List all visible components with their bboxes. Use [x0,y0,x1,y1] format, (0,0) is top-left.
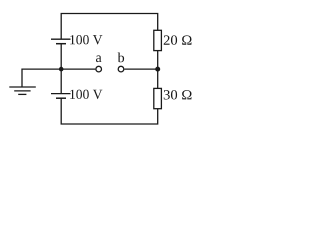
wire left bottom + bottom [61,98,158,124]
terminal b circle [118,66,124,72]
battery B2 plate long [51,93,71,95]
wire middle from ground to terminal a [22,69,95,87]
wire from terminal b to right branch [124,68,157,70]
label node b [118,53,125,63]
battery B1 plate short [56,43,66,45]
battery B1 plate long [51,38,71,40]
wire top [61,14,158,40]
ground bar 2 [14,90,30,92]
label 30 ohm [164,90,192,99]
wire left middle segment [60,44,62,94]
node junction right [155,67,160,72]
node junction left [59,67,64,72]
label 100 V (bottom battery) [70,90,102,100]
battery B2 plate short [56,97,66,99]
label node a [96,55,102,62]
label 100 V (top battery) [70,35,102,45]
wire right middle segment [157,51,159,89]
terminal a circle [96,66,102,72]
resistor R2 body [154,88,162,108]
ground bar 1 [9,86,36,88]
label 20 ohm [164,35,192,44]
resistor R1 body [154,30,162,50]
ground bar 3 [18,93,26,95]
